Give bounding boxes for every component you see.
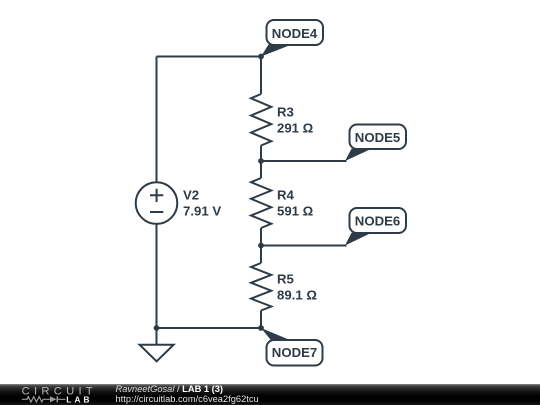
wire lead R4 to node6 junction xyxy=(260,228,262,246)
wire left rail upper (top wire to V2 plus terminal) xyxy=(156,57,158,183)
V2 minus sign xyxy=(150,211,163,213)
wire top horizontal from V2 branch to NODE4 xyxy=(157,56,262,58)
svg-text:NODE6: NODE6 xyxy=(355,214,400,229)
footer credit line xyxy=(116,385,223,394)
flag tail NODE7 xyxy=(261,328,291,340)
wire lead R3 to node5 junction xyxy=(260,146,262,162)
footer logo CIRCUIT LAB xyxy=(0,384,100,405)
wire lead R5 to node7 xyxy=(260,311,262,329)
svg-text:R5: R5 xyxy=(277,271,294,286)
junction dot node NODE5 xyxy=(258,158,264,164)
wire lead node5 junction to R4 xyxy=(260,161,262,178)
voltage source V2 circle xyxy=(136,182,178,224)
flag box NODE6 xyxy=(350,208,407,233)
svg-text:LAB: LAB xyxy=(66,395,92,405)
svg-text:NODE5: NODE5 xyxy=(355,130,400,145)
wire node6 branch horizontal xyxy=(261,245,347,247)
flag box NODE4 xyxy=(267,20,324,45)
ground stem xyxy=(156,328,158,345)
svg-text:V2: V2 xyxy=(183,188,199,203)
resistor R5 zigzag xyxy=(251,263,271,311)
svg-text:NODE7: NODE7 xyxy=(272,345,317,360)
wire bottom horizontal from V2 branch to NODE7 xyxy=(157,327,262,329)
junction dot node NODE6 xyxy=(258,243,264,249)
wire node5 branch horizontal xyxy=(261,160,347,162)
svg-text:7.91 V: 7.91 V xyxy=(183,204,221,219)
junction dot node NODE7 xyxy=(258,325,264,331)
footer bar xyxy=(0,384,540,405)
flag tail NODE6 xyxy=(345,233,372,246)
wire lead node6 junction to R5 xyxy=(260,246,262,264)
junction dot V2 bottom xyxy=(154,325,160,331)
resistor R4 zigzag xyxy=(251,178,271,228)
flag tail NODE5 xyxy=(345,149,372,161)
svg-text:R4: R4 xyxy=(277,188,295,203)
flag tail NODE4 xyxy=(261,45,289,57)
svg-text:89.1 Ω: 89.1 Ω xyxy=(277,287,317,302)
V2 plus sign xyxy=(150,189,163,202)
junction dot node NODE4 xyxy=(258,54,264,60)
wire right rail lead NODE4 to R3 xyxy=(260,57,262,95)
svg-text:NODE4: NODE4 xyxy=(272,26,318,41)
resistor R3 zigzag xyxy=(251,94,271,146)
svg-text:591 Ω: 591 Ω xyxy=(277,204,314,219)
svg-text:291 Ω: 291 Ω xyxy=(277,121,314,136)
flag box NODE7 xyxy=(267,340,323,366)
ground triangle xyxy=(140,345,174,362)
flag box NODE5 xyxy=(350,125,407,150)
wire left rail lower (V2 minus terminal to bottom wire) xyxy=(156,224,158,328)
footer url line xyxy=(116,395,259,404)
svg-text:R3: R3 xyxy=(277,105,294,120)
